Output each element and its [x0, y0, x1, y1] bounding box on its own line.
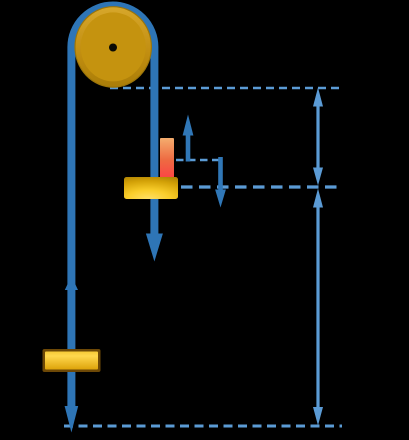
- rope up-arrow marker on left rope: [65, 276, 78, 290]
- gold mass left: [43, 349, 101, 372]
- rope arrowhead right (tension arrow): [146, 234, 163, 262]
- rope over pulley: [71, 6, 154, 407]
- rope arrowhead bottom-left: [65, 406, 79, 433]
- dimension arrow lower (h2): [316, 206, 319, 408]
- dashed reference line middle (mass level): [181, 185, 343, 188]
- gold mass right: [124, 177, 178, 199]
- small down arrow: [218, 157, 223, 190]
- dashed reference line top (pulley-bottom level): [110, 87, 341, 89]
- dashed reference line bottom (ground level): [64, 425, 342, 428]
- pulley axle dot: [109, 44, 117, 52]
- dimension arrow upper (h1): [316, 105, 319, 168]
- pulley: [75, 7, 151, 87]
- dashed reference line small step: [176, 159, 222, 161]
- orange block: [160, 138, 174, 178]
- small up arrow: [186, 134, 191, 162]
